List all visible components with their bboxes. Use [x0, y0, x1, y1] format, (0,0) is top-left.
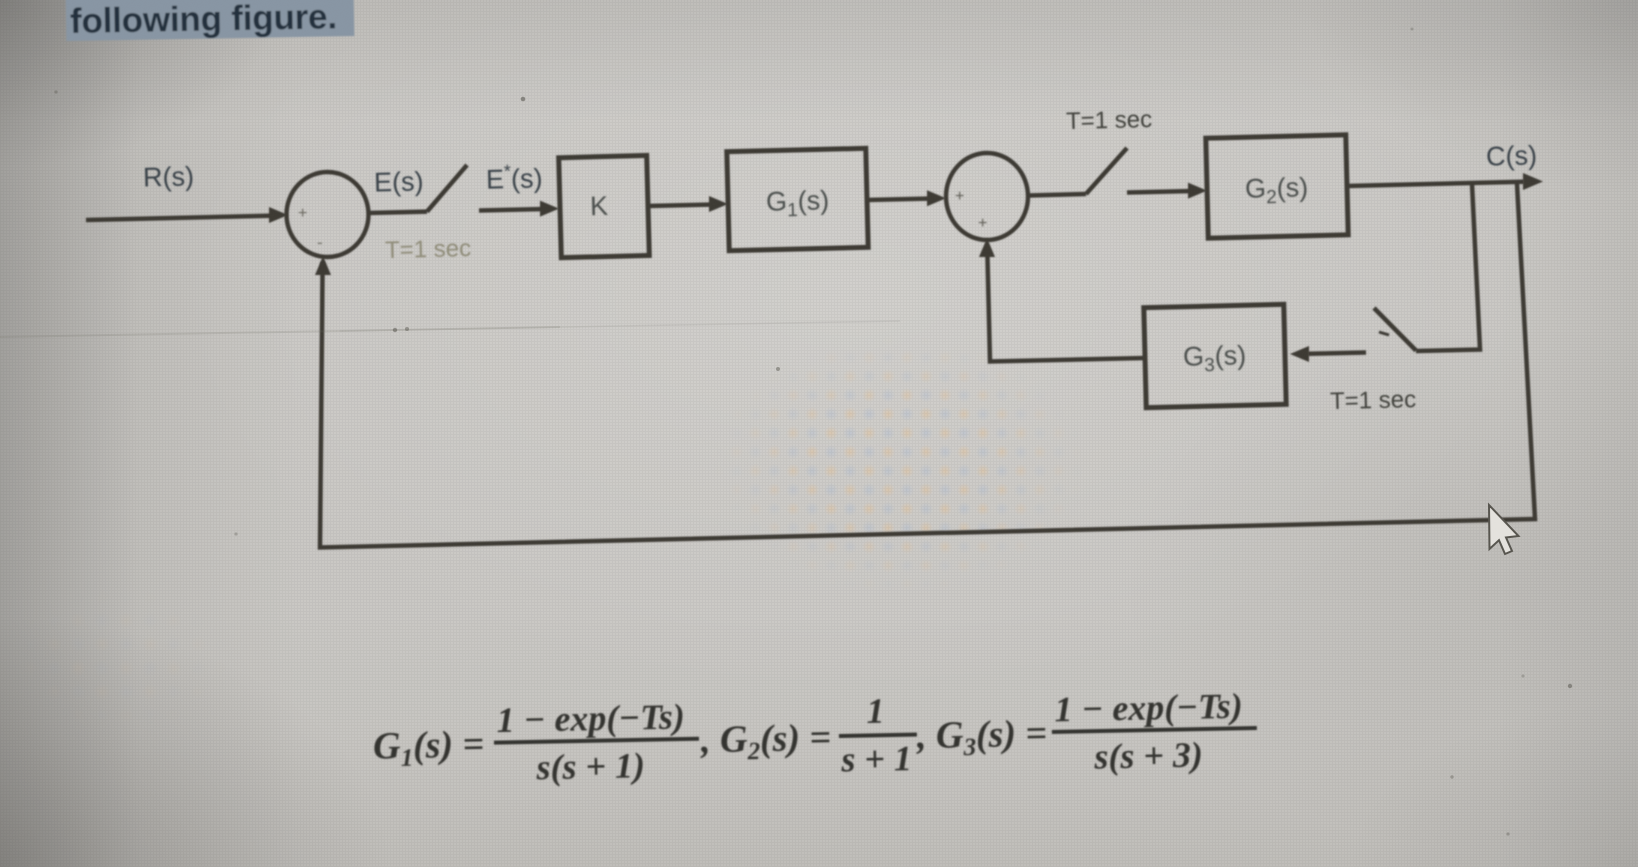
- block G3: [1144, 304, 1286, 407]
- eq frac1 bar: [494, 737, 699, 745]
- sampler T3 arm: [1374, 308, 1416, 351]
- wire outer feedback: S1 down, across bottom, up to C line: [320, 184, 1535, 548]
- arrowhead into S2: [927, 190, 946, 206]
- block G1: [727, 148, 868, 250]
- wire sampler3 to G3: [1308, 353, 1366, 354]
- wire sampler to G2: [1127, 191, 1193, 193]
- arrowhead into S1 from below (upward): [315, 256, 331, 275]
- wire G2 to C(s): [1347, 182, 1524, 186]
- arrowhead into S1: [269, 207, 288, 223]
- arrowhead into G2: [1188, 183, 1207, 199]
- wire R(s) input: [86, 216, 274, 220]
- summing junction S2: [946, 153, 1028, 240]
- wire inner tap vertical: [1416, 184, 1480, 351]
- mouse cursor: [1489, 505, 1519, 554]
- wire K to G1: [648, 205, 714, 207]
- sampler T2 arm: [1086, 148, 1127, 194]
- arrowhead into G1: [709, 196, 728, 212]
- sampler T3 tick: [1379, 332, 1389, 335]
- wire E(s): [368, 212, 427, 213]
- arrowhead into G3 (leftward): [1290, 346, 1309, 362]
- arrowheads: [269, 173, 1543, 362]
- arrowhead into K: [540, 201, 559, 217]
- wire S2 out: [1028, 194, 1086, 196]
- wire G3 out elbow up to S2: [987, 254, 1145, 362]
- scratch mark: [0, 327, 560, 337]
- equation: [372, 684, 1258, 791]
- headline highlight: [66, 0, 355, 41]
- wire G1 to S2: [867, 199, 932, 201]
- sampler T1 arm: [427, 165, 467, 212]
- summing junction S1: [287, 172, 369, 257]
- block G2: [1206, 135, 1348, 238]
- wire E*(s) to K: [479, 209, 545, 211]
- eq frac2 bar: [839, 733, 917, 738]
- block K: [559, 155, 650, 257]
- arrowhead into S2 from below (upward): [979, 238, 995, 257]
- arrowhead C(s): [1523, 173, 1543, 190]
- eq frac3 bar: [1052, 726, 1257, 734]
